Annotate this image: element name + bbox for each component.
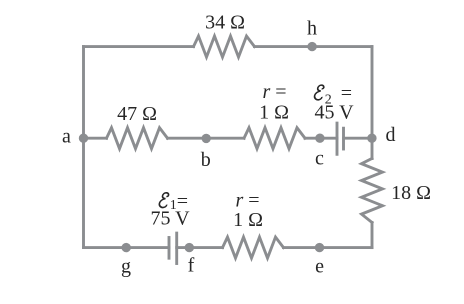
battery E2 long plate [336, 123, 339, 154]
node e junction dot [315, 243, 324, 252]
wire: battery E2 to node d [344, 137, 373, 140]
battery E2 short plate [342, 128, 345, 149]
svg-text:2: 2 [325, 93, 332, 108]
wire: bottom-left through node g to battery E1 [84, 246, 170, 249]
svg-text:=: = [341, 82, 352, 104]
resistor r internal 1ohm (bottom branch) [223, 237, 284, 258]
svg-text:45 V: 45 V [314, 102, 354, 124]
node c junction dot [315, 134, 324, 143]
svg-text:=: = [177, 191, 188, 213]
label script-E2 = (emf 2 symbol) [314, 82, 352, 107]
wire: top-right segment through node h [255, 45, 373, 48]
battery E1 short plate [168, 238, 171, 259]
svg-text:34 Ω: 34 Ω [205, 12, 245, 34]
wire: middle c segment to battery E2 [305, 137, 337, 140]
wire: middle b segment [168, 137, 245, 140]
svg-text:b: b [201, 149, 211, 171]
node a junction dot [79, 134, 88, 143]
svg-text:f: f [188, 255, 195, 277]
label script-E1 = (emf 1 symbol) [159, 191, 188, 214]
svg-text:d: d [386, 124, 396, 146]
wire: middle a to 47 ohm [84, 137, 107, 140]
svg-text:e: e [315, 256, 324, 278]
svg-text:18 Ω: 18 Ω [391, 182, 431, 204]
svg-text:h: h [307, 18, 317, 40]
wire: node f to bottom 1 ohm resistor [177, 246, 223, 249]
resistor R 18ohm (vertical) [362, 159, 383, 223]
wire: bottom-right through node e [284, 246, 373, 249]
wire: right vertical d riser [371, 47, 374, 159]
svg-text:1 Ω: 1 Ω [259, 102, 289, 124]
svg-text:1 Ω: 1 Ω [233, 209, 263, 231]
svg-text:r =: r = [262, 81, 286, 103]
battery E1 long plate [175, 233, 178, 263]
node d junction dot [367, 134, 376, 143]
node g junction dot [122, 243, 131, 252]
wire: left vertical (a branch riser) [82, 47, 85, 248]
svg-text:c: c [315, 148, 324, 170]
node h junction dot [307, 42, 316, 51]
resistor r internal 1ohm (middle branch) [244, 128, 305, 149]
node b junction dot [202, 134, 211, 143]
wire: right vertical below 18 ohm [371, 223, 374, 248]
svg-text:g: g [121, 256, 131, 278]
resistor R 47ohm [107, 128, 168, 149]
svg-text:47 Ω: 47 Ω [117, 103, 157, 125]
resistor R 34ohm [194, 36, 255, 57]
node f junction dot [185, 243, 194, 252]
wire: top-left segment to 34 ohm resistor [84, 45, 194, 48]
svg-text:a: a [62, 126, 71, 148]
